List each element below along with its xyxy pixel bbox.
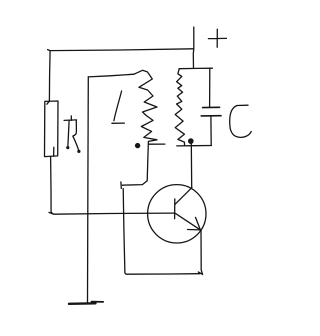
- inductor L1: [134, 70, 157, 141]
- wire resistor bottom to base corner: [51, 157, 53, 214]
- label C: [230, 105, 252, 137]
- label L: [112, 91, 125, 123]
- power terminal lead: [192, 27, 195, 68]
- junction dot L1: [135, 143, 140, 148]
- wire top rail: [48, 49, 193, 51]
- wire tank top: [179, 67, 212, 70]
- wire inner left drop to ground: [87, 77, 90, 303]
- wire inner top: [88, 74, 134, 77]
- resistor R: [45, 101, 59, 157]
- transistor Q1: [148, 185, 206, 243]
- plus sign: [208, 29, 226, 47]
- junction dot L2: [188, 138, 194, 144]
- inductor L2: [175, 69, 184, 146]
- wire left drop to resistor: [48, 51, 51, 102]
- wire L1 bottom to emitter (down, jog left, down, right, up): [121, 141, 203, 274]
- wire collector: [190, 142, 192, 188]
- label R: [64, 116, 80, 153]
- capacitor C: [201, 68, 221, 145]
- wire L1 bottom stub: [149, 143, 165, 145]
- wire base: [49, 212, 175, 214]
- ground: [69, 302, 103, 304]
- wire tank bottom: [177, 145, 212, 147]
